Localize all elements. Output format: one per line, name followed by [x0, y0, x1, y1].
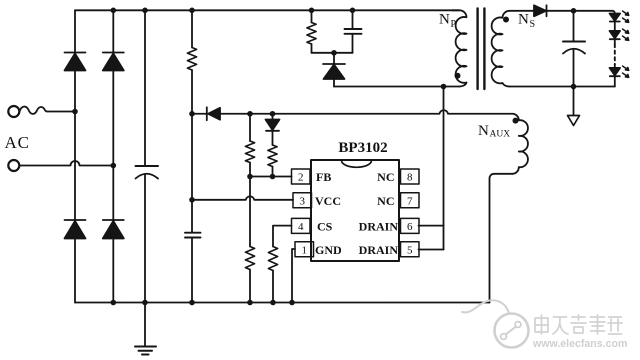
wire secondary top	[510, 10, 535, 12]
pin 8 box	[401, 169, 420, 184]
svg-text:NC: NC	[377, 194, 394, 208]
node VCC junction	[189, 197, 195, 203]
ground output triangle	[568, 87, 580, 126]
wire dashed LED continuation	[614, 44, 616, 65]
node top rail junctions	[111, 8, 117, 14]
node primary polarity dot	[455, 73, 461, 79]
transformer core	[478, 9, 485, 90]
node snubber junction	[331, 50, 337, 56]
resistor R2 feedback upper	[245, 114, 254, 177]
resistor R1 startup	[187, 10, 196, 232]
diode D8 output rectifier	[534, 5, 547, 16]
transformer secondary winding Ns	[492, 11, 510, 87]
svg-text:P: P	[451, 19, 457, 30]
svg-text:NC: NC	[377, 170, 394, 184]
diode D3 bridge lower-left	[65, 220, 86, 239]
node aux polarity dot	[513, 118, 519, 124]
node secondary polarity dot	[503, 17, 509, 23]
watermark text placeholder glyphs	[535, 315, 622, 334]
diode D4 bridge lower-right	[103, 220, 124, 239]
LED LED2	[610, 31, 621, 39]
svg-text:N: N	[518, 12, 529, 28]
diode D2 bridge upper-right	[103, 53, 124, 71]
node AC live junction	[72, 109, 78, 115]
svg-text:N: N	[439, 12, 450, 28]
ground earth symbol	[135, 303, 156, 355]
capacitor C1 bulk electrolytic	[136, 10, 159, 302]
IC notch	[342, 161, 372, 168]
capacitor C2 VCC	[185, 233, 201, 303]
svg-text:2: 2	[298, 172, 304, 184]
svg-text:AUX: AUX	[490, 130, 511, 140]
resistor R5 current sense	[268, 247, 277, 303]
wire drain vertical	[443, 87, 445, 250]
wire bottom rail	[75, 302, 490, 304]
node aux line junctions	[189, 111, 195, 117]
node bottom rail junctions	[111, 300, 117, 306]
transformer primary winding Np	[452, 10, 467, 86]
resistor R3 feedback branch	[268, 145, 277, 177]
LED LED1	[610, 14, 621, 22]
svg-text:4: 4	[298, 221, 304, 233]
wire aux bottom to rail	[490, 174, 513, 303]
svg-text:VCC: VCC	[315, 194, 341, 208]
wire VCC to pin 3 with hop	[192, 196, 293, 199]
fuse F1	[20, 107, 76, 114]
wire pin6 drain	[419, 225, 444, 227]
wire aux node A horizontal with hop over drain line	[192, 110, 513, 114]
wire GND pin 1 to rail	[292, 249, 295, 303]
svg-text:CS: CS	[317, 220, 333, 234]
svg-text:N: N	[478, 123, 489, 139]
diode D6 feedback branch	[266, 114, 280, 145]
svg-text:3: 3	[299, 195, 305, 207]
watermark logo	[462, 300, 529, 347]
wire secondary bottom	[510, 86, 615, 88]
node output junctions	[571, 8, 577, 14]
pin 2 box	[292, 169, 311, 184]
LED LED3	[610, 68, 621, 76]
svg-text:5: 5	[407, 244, 413, 256]
svg-text:BP3102: BP3102	[338, 140, 387, 156]
capacitor C3 snubber	[345, 10, 362, 53]
pin 5 box	[401, 242, 420, 257]
diode D5 aux rectifier	[207, 107, 220, 120]
svg-text:S: S	[530, 19, 536, 30]
capacitor C4 output electrolytic	[563, 11, 585, 87]
wire bridge left column	[74, 10, 76, 302]
LED LED3 arrows	[623, 66, 629, 77]
pin 3 box	[293, 193, 312, 208]
wire top rail	[75, 9, 459, 11]
resistor R6 snubber	[307, 10, 316, 53]
pin 4 box	[292, 218, 311, 233]
svg-text:1: 1	[301, 244, 307, 256]
AC terminal top	[8, 106, 19, 117]
wire bridge right column	[112, 10, 114, 302]
svg-text:www.elecfans.com: www.elecfans.com	[532, 338, 627, 350]
svg-text:6: 6	[407, 221, 413, 233]
svg-text:GND: GND	[315, 243, 342, 257]
wire AC neutral with hop over left column	[20, 161, 114, 165]
pin 1 box	[295, 242, 314, 257]
svg-text:7: 7	[407, 195, 413, 207]
diode D1 bridge upper-left	[65, 53, 86, 71]
svg-text:AC: AC	[5, 133, 30, 152]
resistor R4 FB lower divider	[245, 177, 254, 303]
svg-text:DRAIN: DRAIN	[359, 220, 399, 234]
wire FB to pin 2	[250, 176, 292, 178]
node AC neutral junction	[111, 163, 117, 169]
AC terminal bottom	[8, 160, 19, 171]
pin 7 box	[401, 193, 420, 208]
svg-text:8: 8	[407, 172, 413, 184]
LED LED1 arrows	[623, 11, 629, 22]
wire output top	[547, 11, 615, 13]
wire pin5 drain	[419, 249, 444, 251]
svg-text:FB: FB	[316, 170, 331, 184]
wire snubber bottom	[312, 52, 353, 54]
op-amp U1 BP3102 IC body	[311, 160, 399, 261]
transformer aux winding Naux	[513, 114, 528, 174]
LED string column	[614, 13, 616, 86]
pin 6 box	[401, 218, 420, 233]
svg-text:DRAIN: DRAIN	[359, 243, 399, 257]
node FB junctions	[247, 174, 253, 180]
node primary bottom junction	[441, 84, 447, 90]
LED LED2 arrows	[623, 29, 629, 40]
wire primary bottom	[334, 86, 460, 88]
wire CS to pin 4	[273, 226, 292, 247]
diode D7 clamp	[323, 53, 345, 87]
